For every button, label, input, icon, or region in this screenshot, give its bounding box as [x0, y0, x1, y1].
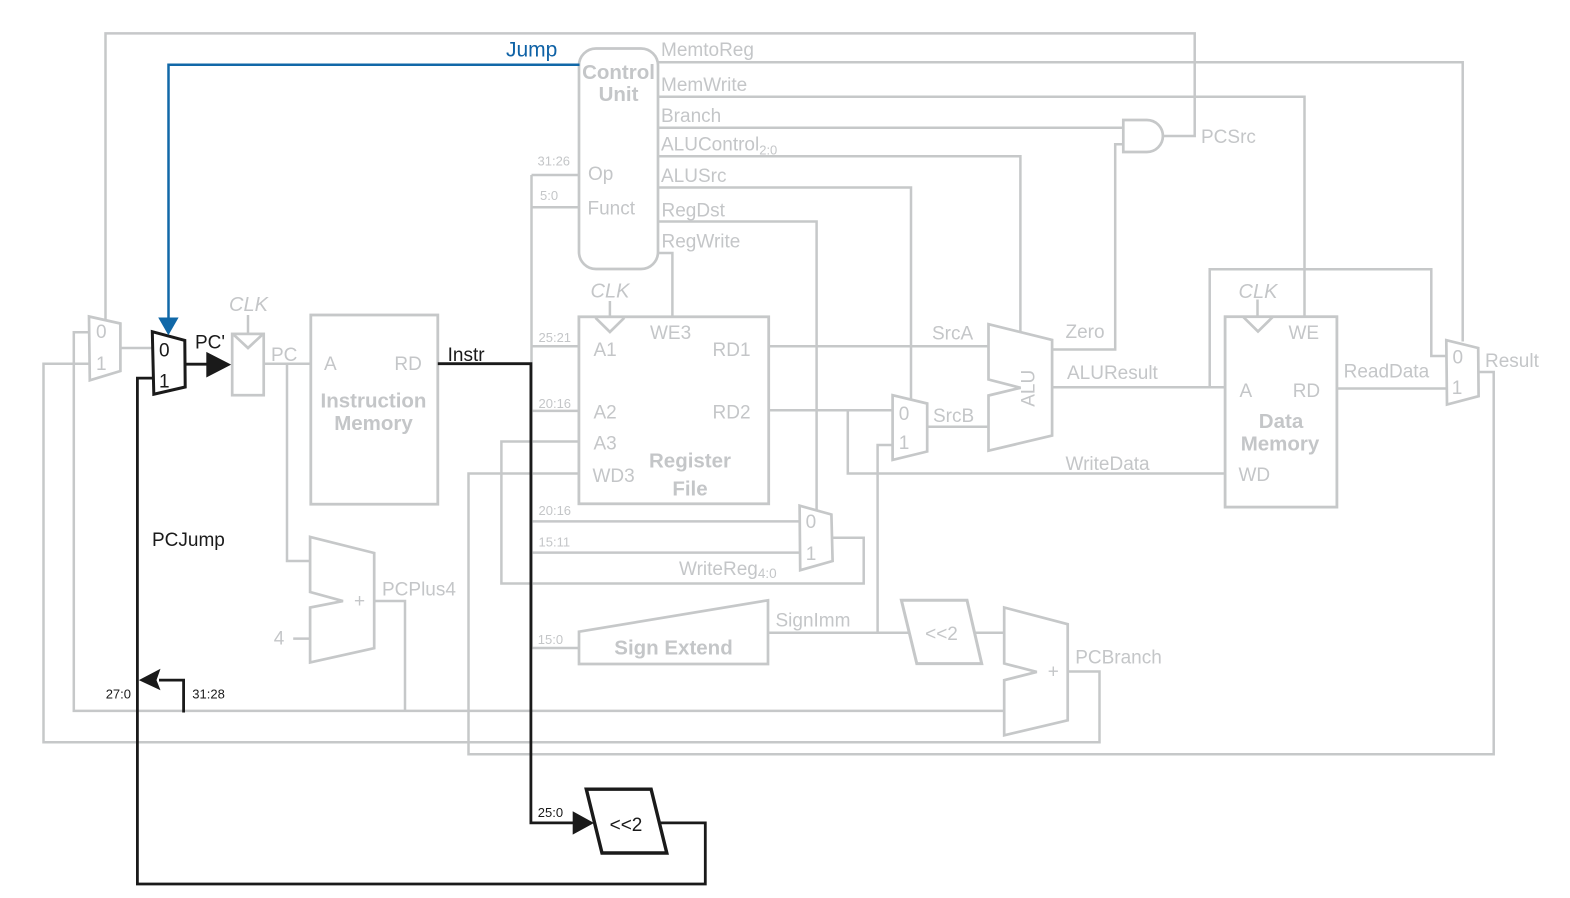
svg-text:0: 0 — [1453, 347, 1464, 368]
svg-text:Memory: Memory — [334, 412, 413, 435]
svg-text:ALU: ALU — [1019, 370, 1040, 407]
svg-text:1: 1 — [899, 433, 910, 454]
svg-text:Data: Data — [1259, 410, 1304, 433]
svg-text:1: 1 — [806, 544, 817, 565]
svg-text:A3: A3 — [594, 434, 617, 455]
svg-text:15:11: 15:11 — [539, 535, 571, 550]
svg-text:ALUSrc: ALUSrc — [661, 166, 726, 187]
svg-text:PCBranch: PCBranch — [1075, 648, 1162, 669]
svg-text:ReadData: ReadData — [1344, 362, 1430, 383]
svg-text:31:28: 31:28 — [192, 687, 225, 702]
svg-text:RD: RD — [394, 354, 421, 375]
svg-text:SrcA: SrcA — [932, 324, 974, 345]
svg-text:Jump: Jump — [506, 39, 557, 62]
svg-text:Sign Extend: Sign Extend — [614, 637, 732, 660]
svg-text:WD3: WD3 — [593, 466, 635, 487]
svg-text:Control: Control — [582, 61, 655, 84]
svg-text:Op: Op — [588, 164, 613, 185]
svg-text:Branch: Branch — [661, 106, 721, 127]
svg-text:25:0: 25:0 — [538, 805, 563, 820]
svg-text:RD2: RD2 — [713, 403, 751, 424]
svg-text:25:21: 25:21 — [539, 330, 572, 345]
svg-text:Memory: Memory — [1241, 433, 1320, 456]
svg-text:File: File — [672, 478, 707, 501]
svg-text:0: 0 — [159, 341, 170, 362]
svg-text:PC': PC' — [195, 333, 225, 354]
svg-text:WE3: WE3 — [650, 323, 691, 344]
svg-text:1: 1 — [1452, 378, 1463, 399]
svg-text:Zero: Zero — [1066, 322, 1105, 343]
svg-text:0: 0 — [899, 404, 910, 425]
svg-text:Instruction: Instruction — [321, 390, 427, 413]
svg-text:CLK: CLK — [1239, 281, 1280, 303]
svg-text:Instr: Instr — [448, 345, 486, 366]
svg-text:Unit: Unit — [599, 83, 639, 106]
svg-text:0: 0 — [806, 512, 817, 533]
svg-text:Register: Register — [649, 450, 731, 473]
svg-text:<<2: <<2 — [610, 815, 643, 836]
svg-text:+: + — [1048, 662, 1059, 683]
svg-text:1: 1 — [159, 371, 170, 392]
svg-text:RegDst: RegDst — [662, 201, 726, 222]
svg-text:PCJump: PCJump — [152, 530, 225, 551]
svg-text:SignImm: SignImm — [776, 611, 851, 632]
svg-text:Result: Result — [1485, 351, 1540, 372]
svg-text:ALUResult: ALUResult — [1067, 363, 1159, 384]
svg-text:A1: A1 — [594, 340, 617, 361]
svg-text:20:16: 20:16 — [539, 396, 572, 411]
svg-text:A: A — [1240, 381, 1253, 402]
svg-text:20:16: 20:16 — [539, 503, 572, 518]
svg-text:31:26: 31:26 — [538, 154, 571, 169]
svg-text:PCPlus4: PCPlus4 — [382, 580, 456, 601]
svg-text:WriteData: WriteData — [1066, 454, 1151, 475]
svg-text:+: + — [354, 591, 365, 612]
svg-text:15:0: 15:0 — [538, 632, 563, 647]
svg-text:RD: RD — [1293, 381, 1320, 402]
svg-text:WD: WD — [1239, 465, 1271, 486]
svg-text:<<2: <<2 — [925, 624, 958, 645]
svg-text:SrcB: SrcB — [933, 406, 974, 427]
svg-text:PC: PC — [271, 345, 297, 366]
svg-text:WE: WE — [1289, 323, 1320, 344]
svg-text:27:0: 27:0 — [106, 687, 131, 702]
svg-text:A: A — [324, 354, 337, 375]
svg-text:0: 0 — [96, 322, 107, 343]
svg-text:1: 1 — [96, 354, 107, 375]
svg-text:MemWrite: MemWrite — [661, 75, 747, 96]
svg-text:CLK: CLK — [229, 294, 270, 316]
svg-text:A2: A2 — [594, 403, 617, 424]
svg-text:RegWrite: RegWrite — [662, 232, 741, 253]
svg-text:CLK: CLK — [591, 281, 632, 303]
svg-text:4: 4 — [274, 629, 285, 650]
svg-text:Funct: Funct — [588, 199, 636, 220]
svg-text:RD1: RD1 — [713, 340, 751, 361]
svg-text:MemtoReg: MemtoReg — [661, 40, 754, 61]
svg-text:5:0: 5:0 — [540, 188, 558, 203]
svg-text:PCSrc: PCSrc — [1201, 127, 1256, 148]
